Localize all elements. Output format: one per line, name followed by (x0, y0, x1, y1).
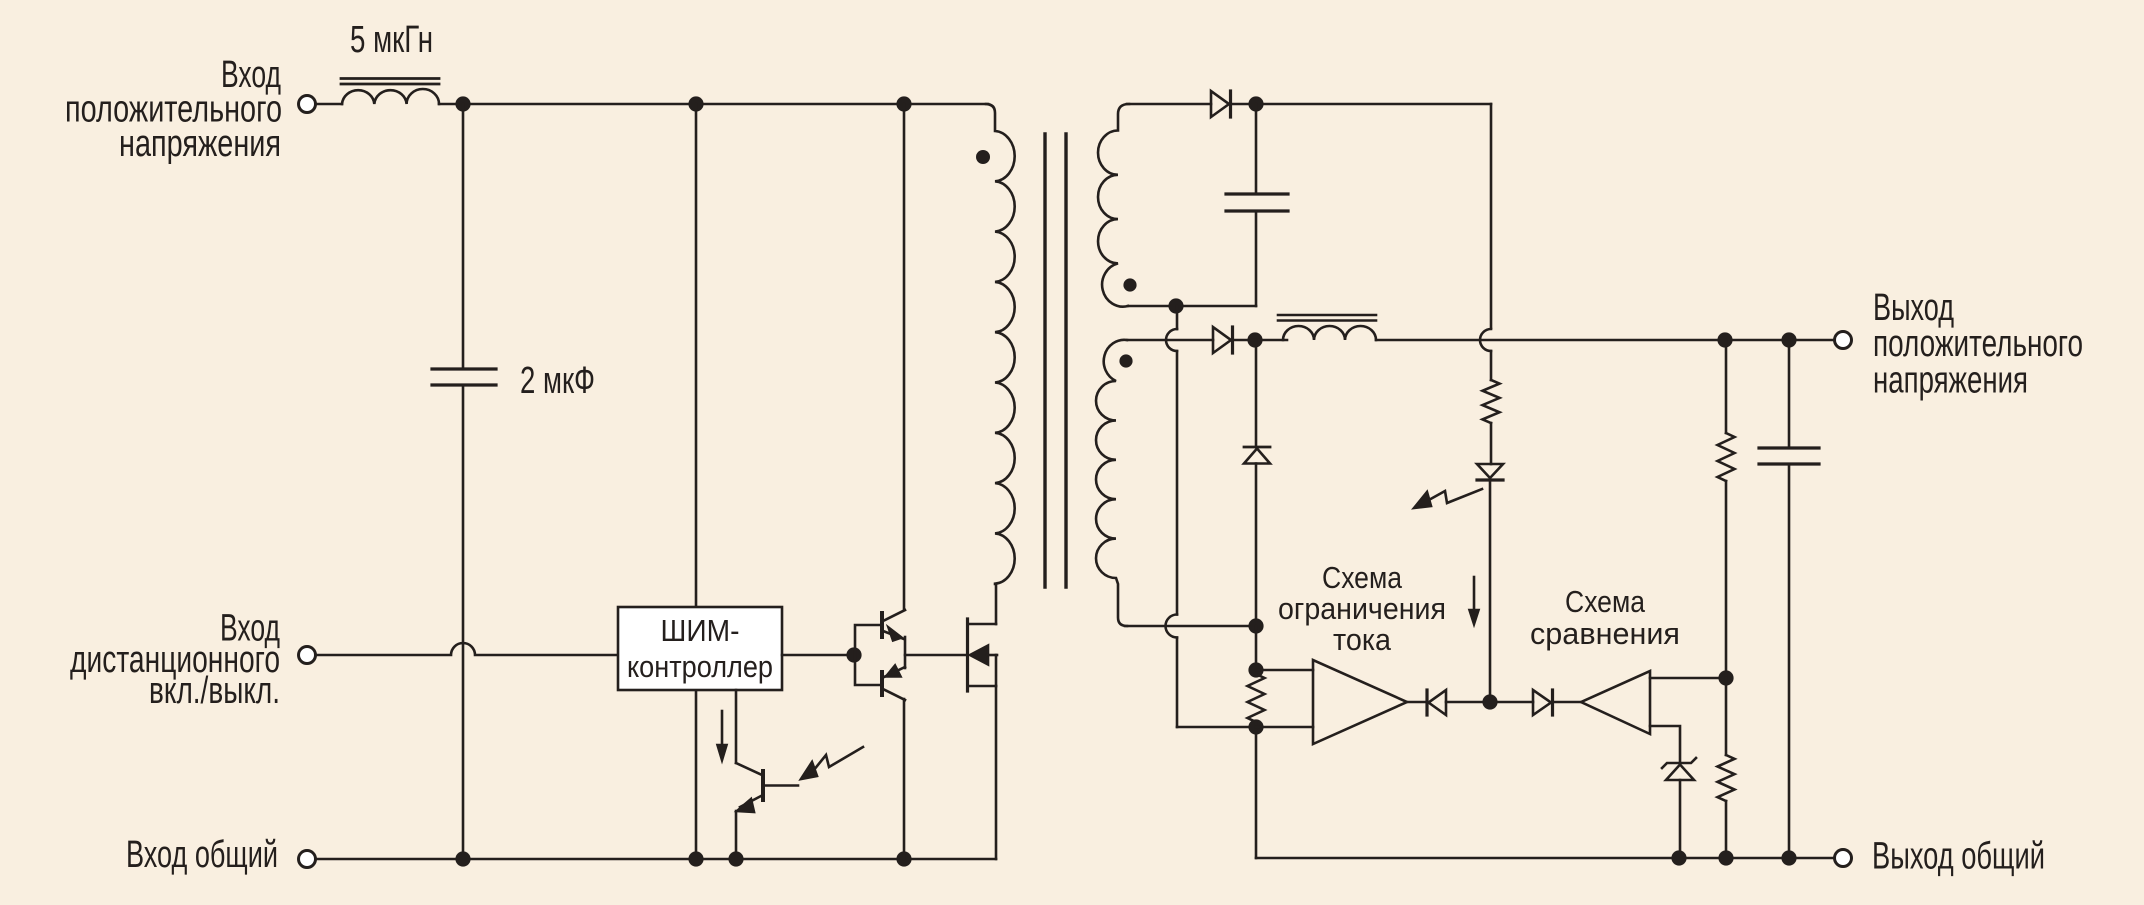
svg-text:5 мкГн: 5 мкГн (350, 19, 433, 61)
resistor R4 (1718, 755, 1735, 801)
wire sec2 top to D2 (1127, 339, 1213, 342)
node cap-bot (1781, 850, 1796, 865)
diode D7 (1533, 690, 1553, 715)
wire C2 lower lead (1255, 211, 1258, 306)
MOSFET Q4 (968, 619, 998, 691)
diode D6 (1427, 690, 1446, 715)
label comparison circuit (1530, 584, 1680, 651)
svg-text:напряжения: напряжения (1873, 360, 2028, 402)
diode D1 (1211, 91, 1231, 117)
secondary 2 phase dot (1119, 354, 1132, 367)
wire zener to bottom rail (1679, 780, 1682, 858)
wire to R1 (1490, 351, 1493, 380)
node bot-B (688, 851, 703, 866)
node top-C (896, 96, 911, 111)
capacitor C3 (1759, 448, 1819, 464)
freewheel diode D3 (1244, 447, 1270, 464)
label output common (1872, 836, 2045, 878)
input common terminal (299, 851, 316, 868)
wire sec2 bottom (1125, 625, 1256, 628)
wire D6 to node (1446, 701, 1490, 704)
wire opto emitter to bottom rail (735, 811, 738, 859)
wire output rail (1376, 339, 1843, 342)
output common terminal (1835, 850, 1852, 867)
transformer primary winding (986, 104, 1015, 584)
wire PWM vcc line upper (695, 104, 698, 607)
svg-text:Схема: Схема (1322, 560, 1403, 595)
wire Q1 collector to top rail (903, 104, 906, 610)
wire to R2 (1255, 626, 1258, 670)
optocoupler LED D5 (1477, 464, 1503, 480)
wire Q2 collector to bottom rail (903, 699, 906, 859)
wire tap to R4 (1725, 678, 1728, 755)
wire PWM gnd line lower (695, 690, 698, 859)
PWM controller box U3 (618, 607, 782, 690)
wire PWM to opto collector (735, 690, 738, 763)
wire U2 bottom input (1650, 726, 1680, 762)
wire top rail primary (439, 103, 988, 106)
node rect-out (1247, 332, 1262, 347)
label output positive voltage (1873, 287, 2083, 402)
wire C3 upper lead (1788, 340, 1791, 448)
label 2 мкФ (520, 360, 595, 402)
wire remote with hop over C1 line (316, 643, 618, 655)
label input positive voltage (65, 54, 282, 165)
wire bottom rail right (1256, 857, 1843, 860)
wire D1 to corner (1232, 103, 1491, 106)
optocoupler phototransistor Q3 (736, 763, 798, 812)
LED photon arrow (1414, 489, 1482, 508)
wire amp to D6 (1407, 701, 1427, 704)
node divider tap (1718, 670, 1733, 685)
PWM current arrow (718, 711, 727, 760)
node snub-top (1248, 618, 1263, 633)
transformer core (1045, 134, 1066, 587)
wire driver output node (905, 637, 966, 668)
wire Q4 drain to primary (995, 584, 998, 624)
node bot-A (455, 851, 470, 866)
node bot-C (728, 851, 743, 866)
node R2-top (1248, 662, 1263, 677)
transformer secondary 2 winding (1096, 340, 1127, 626)
comparator U2 (1581, 671, 1650, 734)
node top-A (455, 96, 470, 111)
current limit amplifier U1 (1313, 660, 1407, 744)
node out-C (1781, 332, 1796, 347)
wire PWM output (782, 654, 855, 657)
resistor R1 (1483, 380, 1500, 423)
wire sec1 top to D1 (1127, 103, 1211, 106)
current direction arrow (1470, 577, 1479, 624)
transformer secondary 1 winding (1098, 104, 1129, 307)
resistor R3 (1718, 433, 1735, 481)
label 5 мкГн (350, 19, 433, 61)
transistor Q1 upper NPN (882, 610, 905, 641)
node bot-D (896, 851, 911, 866)
node R2-bot (1248, 719, 1263, 734)
wire C3 lower lead (1788, 464, 1791, 858)
wire C2 upper lead (1255, 104, 1258, 194)
wire R2 to bottom rail (1255, 722, 1258, 858)
svg-text:ограничения: ограничения (1278, 591, 1446, 626)
wire R2 top to amp (1256, 669, 1313, 672)
inductor L1 5uH (341, 79, 439, 105)
primary phase dot (976, 150, 990, 164)
node sec1-bot (1168, 298, 1183, 313)
wire C1 upper lead (462, 104, 465, 369)
wire D3 upper lead (1255, 340, 1258, 447)
remote on/off terminal (299, 647, 316, 664)
node div-bot (1718, 850, 1733, 865)
wire Q4 source to bottom rail (995, 686, 998, 859)
node zen-bot (1671, 850, 1686, 865)
svg-text:тока: тока (1333, 622, 1392, 657)
node top-B (688, 96, 703, 111)
svg-text:Вход общий: Вход общий (126, 834, 278, 876)
svg-text:Выход общий: Выход общий (1872, 836, 2045, 878)
svg-text:ШИМ-: ШИМ- (661, 613, 740, 648)
node opto-drive (1482, 694, 1497, 709)
wire opto supply vertical (1490, 104, 1493, 328)
wire node to D7 (1490, 701, 1533, 704)
wire divider upper lead (1725, 340, 1728, 433)
node driver base (846, 647, 861, 662)
wire feedback vertical with hops (1166, 306, 1256, 727)
wire R3 to tap (1725, 481, 1728, 678)
svg-text:сравнения: сравнения (1530, 616, 1680, 651)
label current limit circuit (1278, 560, 1446, 657)
wire U2 top input (1650, 677, 1726, 680)
svg-text:контроллер: контроллер (627, 649, 773, 684)
output positive terminal (1835, 332, 1852, 349)
transistor Q2 lower PNP (882, 666, 905, 701)
inductor L2 output choke (1278, 315, 1376, 340)
wire C1 lower lead (462, 385, 465, 859)
diode D2 (1213, 327, 1233, 353)
svg-text:напряжения: напряжения (119, 123, 281, 165)
wire R1 to LED (1490, 423, 1493, 464)
resistor R2 (1248, 674, 1265, 722)
capacitor C2 (1226, 194, 1288, 211)
wire R2 bot to amp (1256, 726, 1313, 729)
wire D7 to comparator (1554, 701, 1581, 704)
capacitor C1 2uF (432, 369, 496, 385)
input positive terminal (299, 96, 316, 113)
svg-text:2 мкФ: 2 мкФ (520, 360, 595, 402)
wire R4 to bottom rail (1725, 801, 1728, 858)
hop over output rail (1480, 329, 1491, 351)
zener diode D8 (1662, 758, 1696, 780)
svg-text:Схема: Схема (1565, 584, 1646, 619)
node out-R (1717, 332, 1732, 347)
wire sec1 bottom (1128, 305, 1256, 308)
secondary 1 phase dot (1123, 278, 1136, 291)
label input common (126, 834, 278, 876)
wire D3 to node (1255, 464, 1258, 627)
wire bottom rail left (316, 858, 996, 861)
node aux (1248, 96, 1263, 111)
wire D2 to L2 (1234, 339, 1287, 342)
svg-text:вкл./выкл.: вкл./выкл. (149, 670, 280, 712)
wire LED to node (1489, 480, 1492, 703)
opto photon arrow (801, 747, 863, 779)
wire terminal to L1 (316, 103, 342, 106)
wire base bracket (855, 625, 881, 685)
label remote input (70, 608, 280, 713)
